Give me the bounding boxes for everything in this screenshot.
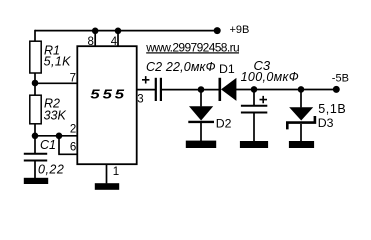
svg-text:100,0мкФ: 100,0мкФ: [241, 70, 300, 84]
wire C3 top lead: [253, 90, 255, 106]
wire pin 2: [35, 135, 77, 137]
svg-text:+9В: +9В: [230, 24, 250, 36]
svg-text:D1: D1: [219, 62, 235, 76]
svg-text:2: 2: [70, 124, 76, 136]
capacitor C3: [241, 106, 267, 113]
wire pin 8: [94, 30, 96, 46]
wire D1 to -5V terminal: [236, 89, 336, 91]
svg-text:www.299792458.ru: www.299792458.ru: [145, 40, 239, 54]
node junction D3: [298, 86, 305, 93]
ground pin 1: [95, 183, 119, 190]
svg-text:5,1В: 5,1В: [318, 102, 346, 116]
svg-text:0,22: 0,22: [38, 163, 64, 177]
wire C3 bottom lead: [253, 113, 255, 141]
svg-text:5,1K: 5,1K: [44, 55, 72, 69]
wire D2 top lead: [200, 90, 202, 107]
node junction R1-R2-pin7: [32, 80, 39, 87]
capacitor C2: [156, 78, 161, 101]
svg-text:555: 555: [90, 88, 127, 102]
ground C3: [240, 141, 268, 148]
capacitor C1: [24, 154, 47, 161]
wire R1 top lead: [34, 30, 36, 42]
svg-text:6: 6: [70, 142, 76, 154]
wire pin 3: [137, 89, 155, 91]
node terminal +9V: [214, 27, 221, 34]
ground D3: [289, 141, 314, 148]
wire pin 4: [117, 30, 119, 46]
svg-text:C1: C1: [40, 138, 56, 152]
diode D2: [188, 106, 214, 122]
label C3 polarity plus: [260, 96, 268, 103]
op-amp U1 555 timer body: [77, 46, 136, 164]
node junction pin 8: [92, 28, 99, 35]
svg-text:1: 1: [113, 166, 119, 178]
node junction R2-C1-pin2: [32, 133, 39, 140]
svg-text:D3: D3: [318, 116, 334, 130]
svg-text:-5В: -5В: [332, 72, 349, 84]
svg-text:3: 3: [137, 93, 143, 105]
wire pin 7: [35, 82, 77, 84]
wire C1 bottom lead: [34, 161, 36, 179]
wire D2 bottom lead: [200, 123, 202, 141]
label C2 polarity plus: [142, 76, 149, 83]
resistor R1: [30, 41, 41, 73]
node junction pin 4: [115, 28, 122, 35]
wire R2 bottom lead: [34, 124, 36, 136]
node junction pin2-pin6: [56, 133, 63, 140]
wire R1 bottom to R2 top: [34, 73, 36, 96]
svg-text:33K: 33K: [44, 108, 67, 122]
wire top rail +9V: [35, 30, 217, 32]
wire C2 to D1: [162, 89, 219, 91]
wire C1 top lead: [34, 136, 36, 153]
svg-text:8: 8: [87, 36, 93, 48]
svg-text:4: 4: [111, 36, 118, 48]
resistor R2: [30, 95, 41, 124]
wire D3 top lead: [300, 90, 302, 108]
wire pin 1 lead: [106, 164, 108, 183]
svg-text:D2: D2: [216, 117, 232, 131]
node junction C3: [251, 86, 258, 93]
diode D1: [220, 78, 237, 101]
zener diode D3: [287, 107, 315, 129]
node terminal -5V: [333, 86, 340, 93]
svg-text:C2 22,0мкФ: C2 22,0мкФ: [146, 60, 216, 74]
wire D3 bottom lead: [300, 124, 302, 141]
ground D2: [186, 141, 216, 148]
svg-text:7: 7: [70, 73, 76, 85]
wire pin 6: [58, 136, 77, 155]
ground C1: [24, 178, 48, 184]
node junction C2-D1-D2: [198, 86, 205, 93]
